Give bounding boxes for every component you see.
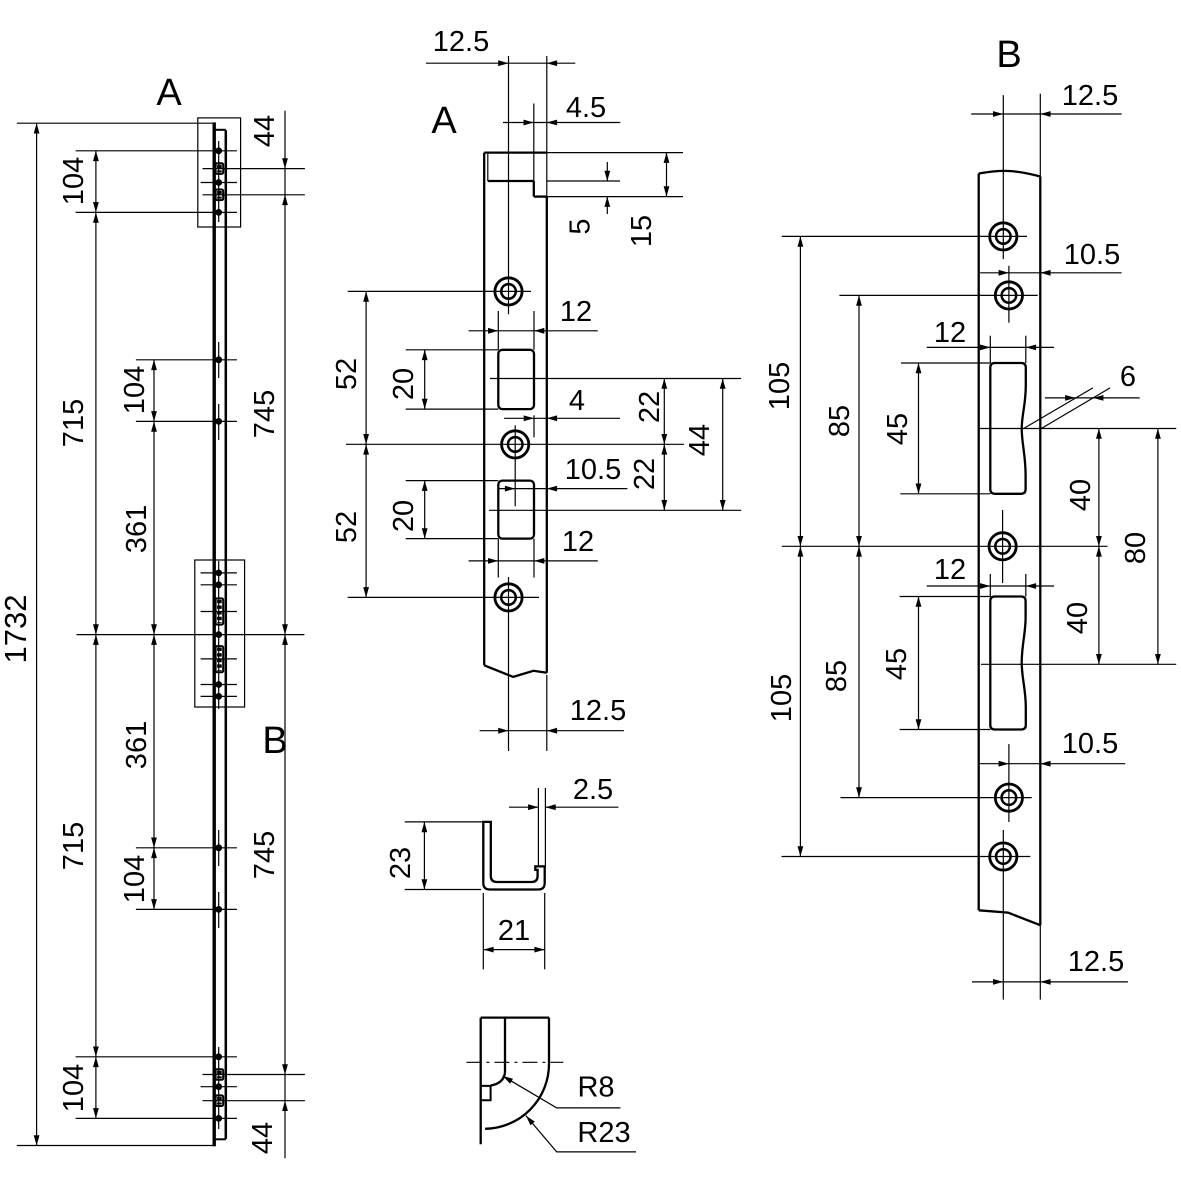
extension verticals top — [508, 56, 510, 314]
svg-text:44: 44 — [684, 424, 716, 456]
dim 5 — [606, 162, 608, 181]
svg-text:6: 6 — [1120, 361, 1136, 393]
svg-text:12.5: 12.5 — [433, 26, 489, 58]
screw holes — [990, 223, 1017, 250]
svg-text:4.5: 4.5 — [566, 92, 606, 124]
center dash-dot line — [466, 1061, 563, 1063]
callout rectangle B — [195, 560, 245, 707]
svg-text:105: 105 — [766, 674, 798, 722]
dim 12.5 bottom — [480, 730, 624, 732]
dim 4.5 — [503, 122, 620, 124]
overall bottom extension line — [17, 1145, 216, 1147]
dim 20 top — [406, 349, 499, 351]
svg-text:5: 5 — [565, 218, 597, 234]
dim 12 top — [927, 346, 1054, 348]
lip fold diagonals — [1024, 388, 1093, 429]
svg-text:44: 44 — [249, 115, 281, 147]
svg-text:12: 12 — [934, 554, 966, 586]
top step of plate — [215, 129, 226, 131]
dim 20 bottom — [406, 480, 499, 482]
screw hole middle — [502, 431, 529, 458]
dim 4 — [504, 417, 620, 419]
svg-text:A: A — [431, 100, 457, 142]
svg-text:R23: R23 — [577, 1117, 630, 1149]
top break edge — [979, 171, 1041, 177]
dim 80 — [1157, 429, 1159, 665]
svg-text:85: 85 — [824, 405, 856, 437]
slot center reference lines — [490, 378, 741, 380]
svg-text:22: 22 — [634, 391, 666, 423]
svg-text:B: B — [996, 34, 1021, 76]
right edge extension above fold — [546, 153, 548, 197]
hole center line segments — [218, 141, 220, 222]
dim 45 top — [901, 362, 990, 364]
dim 12 top slot — [469, 330, 598, 332]
small tab notch — [481, 1086, 491, 1100]
svg-text:2.5: 2.5 — [573, 774, 613, 806]
latch bolt rectangles — [216, 163, 224, 174]
svg-text:10.5: 10.5 — [1064, 239, 1120, 271]
svg-text:104: 104 — [119, 366, 151, 414]
svg-text:104: 104 — [58, 157, 90, 205]
dim 12 bottom — [927, 585, 1054, 587]
svg-text:12: 12 — [560, 296, 592, 328]
extension/cross lines at hole levels — [76, 150, 237, 152]
svg-text:52: 52 — [331, 358, 363, 390]
plate outline top lip — [484, 151, 547, 153]
dim 22/22 chain — [663, 379, 665, 511]
dim 21 — [482, 893, 484, 969]
callout rectangle A — [198, 118, 241, 227]
svg-text:104: 104 — [119, 855, 151, 903]
svg-text:361: 361 — [121, 721, 153, 769]
svg-text:R8: R8 — [577, 1072, 614, 1104]
plate outline — [978, 174, 980, 911]
mid reference line view A — [346, 443, 684, 445]
svg-text:44: 44 — [247, 1122, 279, 1154]
svg-text:52: 52 — [331, 511, 363, 543]
dim 1732 overall — [36, 123, 38, 1145]
R8 inner arc with edge line — [504, 1018, 506, 1073]
dim 12 bottom slot — [469, 560, 598, 562]
svg-text:20: 20 — [388, 368, 420, 400]
svg-text:361: 361 — [121, 505, 153, 553]
dim 12.5 bottom — [972, 981, 1128, 983]
latch slot 2 — [498, 481, 534, 539]
svg-text:12.5: 12.5 — [1062, 80, 1118, 112]
dim 44 — [722, 379, 724, 511]
R8 leader — [503, 1076, 621, 1108]
bottom break edge — [979, 910, 1041, 925]
short cross lines at middle holes/latches — [201, 182, 237, 184]
svg-text:12: 12 — [934, 317, 966, 349]
dim 23 — [405, 821, 489, 823]
svg-text:715: 715 — [58, 399, 90, 447]
latch slot 1 with curved lip edge — [990, 363, 1026, 494]
slot extension verticals — [989, 336, 991, 363]
svg-text:80: 80 — [1120, 532, 1152, 564]
R23 outer arc — [485, 1064, 549, 1129]
dim 10.5 — [498, 488, 627, 490]
dim 105 chain — [799, 236, 801, 856]
screw hole bottom — [495, 584, 522, 611]
svg-text:23: 23 — [385, 847, 417, 879]
mid reference line — [77, 634, 305, 636]
extension verticals top — [1002, 95, 1004, 259]
svg-text:12.5: 12.5 — [1068, 946, 1124, 978]
svg-text:1732: 1732 — [0, 595, 33, 664]
svg-text:4: 4 — [569, 385, 585, 417]
svg-text:745: 745 — [249, 390, 281, 438]
svg-text:22: 22 — [629, 458, 661, 490]
svg-text:715: 715 — [58, 822, 90, 870]
svg-text:B: B — [262, 720, 287, 762]
latch level lines (44/745 references) — [203, 168, 305, 170]
dim 6 — [1045, 397, 1140, 399]
dim 15 — [666, 153, 668, 197]
svg-text:40: 40 — [1062, 602, 1094, 634]
svg-text:104: 104 — [58, 1064, 90, 1112]
latch mid reference lines — [980, 428, 1176, 430]
svg-text:745: 745 — [249, 831, 281, 879]
corner detail plan view — [480, 1018, 482, 1145]
dim 2.5 — [537, 788, 539, 866]
dim 12.5 top — [426, 62, 575, 64]
R23 leader — [526, 1116, 636, 1152]
svg-text:10.5: 10.5 — [565, 454, 621, 486]
svg-text:105: 105 — [764, 362, 796, 410]
overall top extension line — [17, 122, 215, 124]
svg-text:15: 15 — [626, 215, 658, 247]
dim chain 104/715/715/104 — [95, 151, 97, 1119]
dim 10.5 bottom — [980, 763, 1125, 765]
break line view A bottom — [484, 665, 547, 677]
dim 10.5 top — [980, 272, 1122, 274]
svg-text:12: 12 — [562, 526, 594, 558]
dim chain 44/745/745/44 — [284, 111, 286, 1159]
latch slot 1 — [498, 350, 534, 409]
svg-text:40: 40 — [1065, 479, 1097, 511]
right edge extension below break — [546, 675, 548, 751]
svg-text:85: 85 — [821, 660, 853, 692]
svg-text:20: 20 — [388, 500, 420, 532]
U-channel cross section — [483, 822, 544, 890]
dim 40/40 chain — [1098, 429, 1100, 665]
dim chain 104/361/361/104 — [153, 360, 155, 910]
dim 52/52 chain — [365, 291, 367, 597]
svg-text:10.5: 10.5 — [1062, 728, 1118, 760]
dim 45 bottom — [900, 596, 991, 598]
plate rear edge — [225, 130, 228, 1139]
slot extension verticals — [497, 311, 499, 350]
latch slot 2 with curved lip edge — [990, 597, 1026, 730]
svg-text:21: 21 — [498, 915, 530, 947]
bottom step of plate — [215, 1138, 226, 1140]
hole dots — [215, 147, 222, 154]
svg-text:A: A — [156, 72, 182, 114]
svg-text:45: 45 — [881, 648, 913, 680]
svg-text:12.5: 12.5 — [570, 695, 626, 727]
right edge bottom extension — [1039, 925, 1041, 999]
dim 85 chain — [858, 295, 860, 797]
extension lines for 5 and 15 dims — [547, 152, 683, 154]
plate front edge (thick) — [212, 122, 215, 1146]
dim 12.5 top — [971, 113, 1121, 115]
svg-text:45: 45 — [882, 413, 914, 445]
screw hole top — [495, 278, 522, 305]
